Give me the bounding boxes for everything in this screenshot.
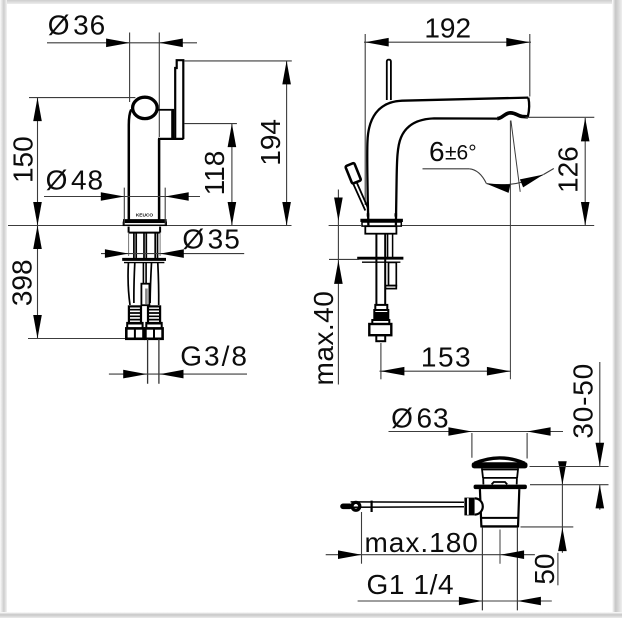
front ball-lever connector [157, 109, 171, 111]
page edge shadow bottom [0, 612, 622, 618]
svg-text:126: 126 [552, 146, 583, 193]
svg-text:Ø36: Ø36 [48, 10, 106, 41]
rod joint boss [475, 498, 483, 514]
50 lower reference line [521, 526, 574, 528]
dim Ø63 line [389, 431, 564, 433]
front pull rod end box [141, 284, 149, 306]
dim 194 arrow up [282, 61, 291, 85]
dim Ø63 extension lines [472, 433, 527, 459]
page edge shadow left [0, 0, 7, 618]
drain neck [482, 468, 518, 484]
svg-text:118: 118 [199, 151, 230, 196]
side base flange top [360, 219, 403, 222]
dim 192 arrow left [365, 38, 389, 47]
dim 30-50 line lower [599, 485, 601, 510]
dim max.180 line [326, 554, 535, 556]
front body right edge [158, 139, 161, 220]
pop-up rod ball [352, 502, 360, 510]
dim max.40 arrow up [334, 260, 343, 284]
svg-text:30-50: 30-50 [567, 363, 598, 439]
dim 150 line [37, 98, 39, 226]
svg-text:Ø48: Ø48 [46, 164, 104, 195]
svg-text:KEUCO: KEUCO [136, 213, 154, 219]
svg-text:50: 50 [529, 554, 560, 585]
dim 150 arrow up [33, 98, 42, 122]
dim 6±6° tail [543, 169, 554, 175]
dim 398 arrow down [33, 315, 42, 339]
side lever knob [345, 163, 361, 184]
front body left edge [129, 110, 131, 221]
dim 150 arrow down [33, 202, 42, 226]
dim max.40 line [337, 190, 339, 385]
50 upper reference line [530, 484, 609, 486]
dim Ø36 line [47, 42, 197, 44]
front fitting right stack [145, 306, 162, 338]
deck line side view [329, 225, 361, 227]
front base flange top [123, 219, 167, 222]
dim Ø36 arrow right [159, 39, 183, 48]
side washer [357, 257, 403, 260]
side lever pin [387, 60, 391, 100]
dim Ø35 arrow left [105, 249, 129, 258]
front base flange box [123, 222, 166, 225]
deck line front view [8, 225, 123, 227]
side base lower box [365, 226, 396, 234]
svg-text:G3/8: G3/8 [180, 340, 249, 371]
194 top reference line [184, 60, 292, 62]
dim 398 arrow up [33, 226, 42, 250]
pop-up rod [351, 502, 464, 507]
dim 6±6° arrow left [486, 180, 511, 193]
dim 192 arrow right [506, 38, 530, 47]
dim 126 arrow down [581, 202, 590, 226]
Ø35 extension lines [129, 233, 161, 256]
dim 6±6° underline [423, 168, 470, 170]
dim Ø36 arrow left [106, 39, 130, 48]
dim 50 text underline [557, 553, 559, 586]
dim 6±6° arc [487, 175, 544, 185]
side base flange box [362, 222, 401, 226]
drain tail centerline [499, 530, 501, 564]
front washer [122, 258, 166, 261]
dim 194 arrow down [282, 202, 291, 226]
svg-text:153: 153 [421, 342, 472, 373]
svg-text:398: 398 [6, 259, 37, 306]
page edge shadow top [0, 0, 622, 4]
pop-up rod tick [371, 501, 373, 512]
dim 30-50 arrow up [596, 485, 605, 509]
dim 153 arrow left [381, 367, 405, 376]
angle tilt line [511, 121, 520, 192]
dim Ø48 arrow right [165, 192, 189, 201]
dim 50 arrow down [558, 461, 567, 485]
dim max.180 arrow right [501, 550, 524, 559]
front lever base plate [171, 109, 174, 139]
dim Ø36 extension line left [129, 33, 131, 103]
dim max.40 arrow down [334, 198, 343, 222]
drain cap dome [475, 458, 525, 463]
dim 126 line [584, 118, 586, 226]
drain neck bump [492, 482, 508, 484]
dim G3/8 line [109, 373, 247, 375]
drain cap brim [472, 462, 528, 468]
side body inner contour [396, 118, 497, 225]
side spout aerator [497, 113, 528, 119]
front pull rod [143, 263, 146, 284]
side shank hose lines [376, 234, 385, 305]
G3/8 tail pipes [148, 339, 159, 384]
dim Ø63 arrow right [527, 427, 551, 436]
dim 398 line [37, 226, 39, 339]
dim Ø35 arrow right [160, 249, 184, 258]
side spout tip face [528, 98, 529, 117]
dim 118 line [231, 124, 233, 226]
svg-text:Ø35: Ø35 [182, 224, 240, 255]
dim Ø63 arrow left [448, 427, 472, 436]
side pull rod housing [389, 262, 397, 285]
svg-text:max.40: max.40 [308, 291, 339, 386]
max.40 reference line [329, 258, 359, 260]
front hoses lower right [150, 263, 159, 305]
153 left extension line [380, 343, 382, 379]
drain tailpipe [482, 527, 517, 610]
svg-text:6: 6 [429, 136, 445, 167]
front lever bar [175, 60, 183, 139]
front fitting left stack [126, 306, 143, 338]
svg-text:Ø63: Ø63 [391, 403, 449, 434]
side hose fitting stack [369, 305, 391, 341]
dim Ø48 extension lines [124, 188, 165, 225]
dim 194 line [286, 61, 288, 226]
svg-text:194: 194 [255, 119, 286, 166]
dim 153 line [380, 370, 512, 372]
150 top reference line [29, 97, 135, 99]
126 top reference line [526, 116, 595, 118]
dim 50 line [561, 462, 563, 552]
front ball joint [133, 97, 158, 118]
svg-text:192: 192 [424, 13, 471, 44]
dim 192 extension left [364, 34, 366, 205]
dim Ø48 arrow left [101, 192, 125, 201]
front shank [129, 227, 161, 233]
side body ticks [368, 213, 396, 216]
dim 30-50 arrow down [596, 443, 605, 467]
pop-up rod stub [343, 503, 350, 509]
front hoses upper [134, 233, 158, 259]
dim 6±6° leader curve [469, 169, 486, 184]
dim 30-50 line upper [599, 362, 601, 466]
dim G3/8 arrow left [123, 370, 147, 379]
dim 126 arrow up [581, 118, 590, 141]
dim max.180 arrow left [338, 550, 362, 559]
svg-text:max.180: max.180 [364, 527, 478, 558]
drain seat ring [474, 485, 527, 490]
dim 118 arrow down [228, 202, 237, 226]
dim G1 1/4 arrow left [459, 597, 483, 606]
dim G1 1/4 line [358, 600, 552, 602]
svg-text:±6°: ±6° [445, 142, 477, 165]
max.180 extension line [361, 512, 363, 564]
dim 153 arrow right [487, 367, 511, 376]
svg-text:150: 150 [8, 136, 39, 183]
drain body [480, 489, 519, 527]
dim Ø35 line [101, 253, 244, 255]
svg-text:G1 1/4: G1 1/4 [366, 569, 454, 600]
dim G1 1/4 arrow right [517, 597, 541, 606]
dim 192 line [364, 41, 531, 43]
page edge shadow right [612, 0, 622, 618]
dim 118 arrow up [228, 124, 237, 148]
dim 6±6° arrow right [520, 171, 545, 188]
dim 50 arrow up [558, 528, 567, 552]
side lever shaft [353, 183, 368, 211]
side body outer contour [367, 98, 528, 226]
30-50 upper reference line [530, 466, 609, 468]
dim G3/8 arrow right [160, 370, 184, 379]
dim Ø36 extension line right [158, 33, 160, 138]
398 bottom reference line [28, 338, 127, 340]
rod joint [464, 498, 474, 516]
118 top reference line [185, 123, 237, 125]
dim Ø48 line [44, 196, 200, 198]
spout outlet centerline [509, 121, 511, 380]
front hoses lower left [128, 263, 135, 305]
front body shoulder [158, 138, 184, 140]
dim 192 extension right [529, 34, 531, 97]
